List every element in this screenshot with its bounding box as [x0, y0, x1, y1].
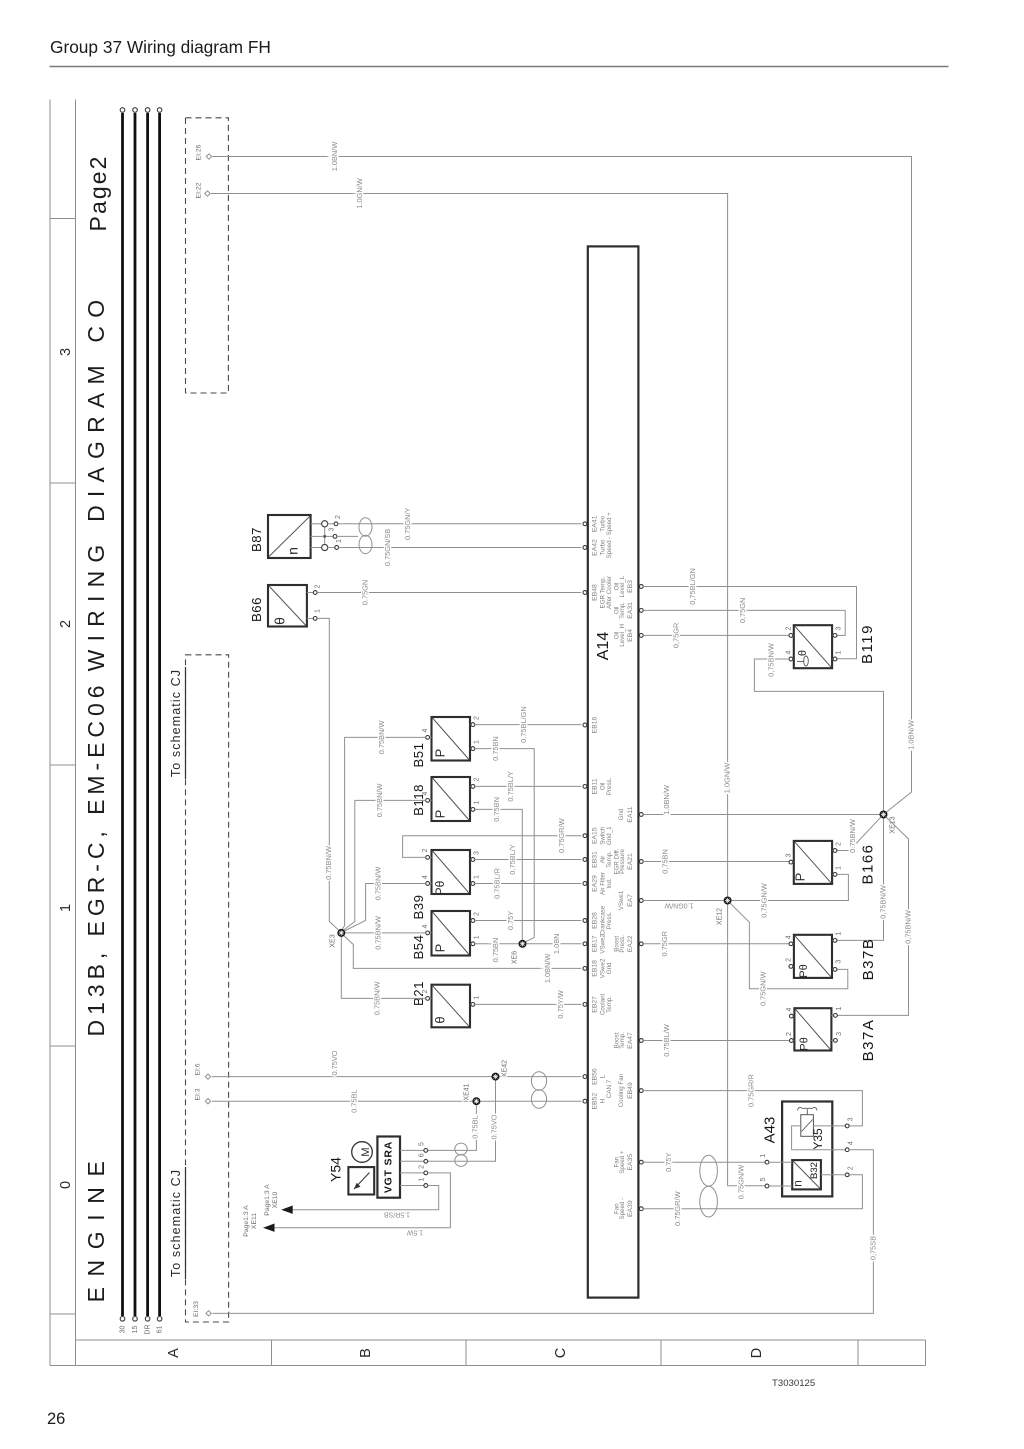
control unit A14: [588, 246, 639, 1297]
svg-text:0.75BL/R: 0.75BL/R: [492, 868, 501, 899]
svg-text:2: 2: [473, 716, 480, 720]
svg-text:1.0BN/W: 1.0BN/W: [330, 142, 339, 172]
svg-text:D: D: [749, 1348, 765, 1358]
svg-text:3: 3: [58, 348, 74, 356]
A14 pin EB28: [583, 905, 613, 935]
svg-text:4: 4: [786, 1008, 793, 1012]
wire B87 pin3 shield stub: [337, 535, 358, 537]
svg-text:1: 1: [58, 904, 74, 912]
svg-text:XE10: XE10: [272, 1191, 279, 1208]
svg-text:B39: B39: [411, 895, 426, 920]
twisted pair symbol VGT: [455, 1143, 467, 1166]
A43 pin1: [760, 1154, 769, 1164]
svg-text:15: 15: [132, 1326, 139, 1334]
svg-text:0.75BL/W: 0.75BL/W: [662, 1024, 671, 1056]
wire B54 pin1 0.75BN to XE6: [475, 938, 519, 963]
wire B166 pin1 0.75GN/W to XE12: [732, 874, 849, 917]
svg-text:B37B: B37B: [860, 938, 877, 981]
junction XE13: [880, 811, 897, 834]
svg-text:1.0GN/W: 1.0GN/W: [664, 902, 693, 909]
svg-text:H: H: [599, 1099, 606, 1103]
svg-text:4: 4: [785, 650, 792, 654]
A43 pin2: [845, 1166, 854, 1176]
svg-text:0,75BN/W: 0,75BN/W: [903, 910, 912, 944]
sensor B32: [769, 1160, 845, 1189]
svg-text:1.0BN/W: 1.0BN/W: [543, 954, 552, 984]
svg-text:1: 1: [760, 1154, 767, 1158]
wire A14 EA22 0.75GR to B37B pin4: [643, 931, 789, 956]
svg-text:1: 1: [473, 740, 480, 744]
wire B119 pin4 0,75BN/W to XE13: [754, 643, 883, 810]
svg-text:Page2: Page2: [85, 154, 111, 231]
A14 pin EA31: [613, 602, 643, 619]
wire B39 pin3 0.75BL/Y to A14 EB31: [475, 844, 581, 874]
svg-text:0: 0: [58, 1181, 74, 1189]
A14 pin EB52: [583, 1093, 606, 1110]
svg-text:3: 3: [835, 959, 842, 963]
wire XE6 1.0BN to A14 EB17: [526, 934, 581, 955]
svg-text:CAN 7: CAN 7: [606, 1079, 613, 1098]
svg-text:2: 2: [848, 1166, 855, 1170]
sensor B87: [249, 515, 311, 558]
wire XE42 0.75VO to VGT SRA pin6: [428, 1081, 499, 1162]
svg-text:2: 2: [473, 777, 480, 781]
svg-text:0.75GN: 0.75GN: [360, 580, 369, 605]
svg-text:3: 3: [473, 851, 480, 855]
svg-text:0.75BN: 0.75BN: [492, 797, 501, 822]
svg-text:B51: B51: [411, 743, 426, 768]
junction XE12: [717, 897, 732, 926]
svg-text:EA41: EA41: [591, 515, 598, 532]
A14 pin EB49: [618, 1073, 643, 1107]
svg-text:1.0GN/W: 1.0GN/W: [355, 178, 364, 208]
wire B21 pin1 0.75Y/W to A14 EB27: [475, 990, 581, 1018]
svg-text:0,75BL/GN: 0,75BL/GN: [688, 568, 697, 605]
svg-text:Pθ: Pθ: [798, 964, 810, 977]
svg-text:B37A: B37A: [860, 1019, 877, 1062]
valve Y35: [798, 1107, 825, 1149]
wire A14 EA11 1.0BN/W to XE13: [643, 785, 879, 815]
svg-text:EB28: EB28: [591, 912, 598, 929]
svg-text:C: C: [553, 1348, 569, 1358]
svg-text:Press.: Press.: [606, 911, 613, 929]
wire A14 EA39 0.75GR/W to B32 pin2: [643, 1175, 862, 1226]
wire B51 pin1 0.75BN to XE6: [475, 736, 534, 942]
svg-text:0.75GN/Y: 0.75GN/Y: [403, 508, 412, 541]
svg-text:P: P: [792, 873, 807, 882]
svg-text:L: L: [599, 1074, 606, 1078]
svg-text:0.75GN/W: 0.75GN/W: [759, 972, 768, 1007]
svg-text:30: 30: [120, 1326, 127, 1334]
junction XE6: [511, 940, 526, 964]
svg-text:1: 1: [836, 1006, 843, 1010]
svg-text:4: 4: [422, 791, 429, 795]
wire B54 pin2 0.75Y to A14 EB28: [475, 911, 581, 930]
svg-text:θ: θ: [797, 650, 809, 656]
bottom ruler band: [50, 1340, 925, 1366]
sensor B166: [785, 841, 876, 885]
A14 pin EA7: [618, 890, 643, 910]
wire B118 pin4 0.75BN/W to XE3: [343, 784, 426, 931]
VGT SRA pin2: [400, 1165, 428, 1175]
svg-text:Pθ: Pθ: [798, 1037, 810, 1050]
svg-text:1: 1: [835, 650, 842, 654]
A14 pin EA42: [583, 537, 613, 559]
wire XE13 0,75BN/W to B37A pin1: [837, 817, 912, 1015]
svg-text:EA42: EA42: [591, 539, 598, 556]
svg-text:A43: A43: [761, 1117, 778, 1144]
svg-text:XE13: XE13: [889, 816, 896, 833]
svg-text:0.75Y/W: 0.75Y/W: [556, 990, 565, 1018]
A14 pin EA21: [613, 848, 643, 874]
terminal EI:26: [195, 144, 211, 160]
svg-text:A: A: [166, 1348, 182, 1358]
svg-text:5: 5: [760, 1177, 767, 1181]
A14 pin EA22: [613, 935, 643, 953]
svg-text:EA29: EA29: [591, 875, 598, 892]
A43 pin4: [845, 1141, 854, 1151]
svg-text:EB16: EB16: [591, 716, 598, 733]
wire VGT SRA pin2 1.5W to XE11: [266, 1173, 450, 1228]
svg-text:Page1:3 A: Page1:3 A: [243, 1205, 250, 1237]
svg-text:0,75BN: 0,75BN: [660, 849, 669, 874]
wire B118 pin1 0.75BN to XE6: [475, 797, 523, 940]
svg-text:VGT SRA: VGT SRA: [383, 1141, 395, 1193]
sensor B54: [411, 911, 480, 959]
A14 pin EB31: [583, 851, 613, 868]
svg-text:XE12: XE12: [717, 908, 724, 925]
wire A14 EB49 0.75GR/R to A43 pin3: [643, 1074, 862, 1126]
svg-text:4: 4: [422, 924, 429, 928]
VGT SRA pin5: [400, 1142, 428, 1152]
wire A14 EA35 0.75Y to B32 pin1: [643, 1152, 765, 1171]
svg-text:1.0GN/W: 1.0GN/W: [723, 763, 732, 793]
B87 connector pins: [311, 515, 343, 551]
dashed box to schematic (top, EI:22/EI:26): [186, 118, 229, 393]
svg-text:0,75SB: 0,75SB: [868, 1236, 877, 1260]
svg-text:0,75BN/W: 0,75BN/W: [766, 643, 775, 677]
svg-text:XE3: XE3: [329, 934, 336, 947]
svg-text:4: 4: [785, 935, 792, 939]
twisted pair symbol B87: [359, 518, 372, 554]
svg-text:0.75GR/R: 0.75GR/R: [747, 1074, 756, 1107]
svg-text:To schematic CJ: To schematic CJ: [169, 1169, 183, 1277]
svg-text:0.75BN: 0.75BN: [491, 736, 500, 761]
svg-text:EB52: EB52: [591, 1093, 598, 1110]
svg-text:0,75BN/W: 0,75BN/W: [878, 885, 887, 919]
wire A14 EB3 0,75BL/GN to B119 pin1: [643, 568, 856, 659]
sensor B118: [411, 777, 480, 821]
svg-text:Temp.: Temp.: [619, 1032, 626, 1049]
wire EI:22 1.0GN/W to XE12 and B32 pin5: [211, 178, 765, 1199]
svg-text:1: 1: [314, 609, 321, 613]
svg-text:EA31: EA31: [627, 602, 634, 619]
svg-text:1: 1: [418, 1177, 425, 1181]
svg-text:Level_H: Level_H: [619, 624, 626, 647]
A43 pin5: [760, 1177, 769, 1187]
svg-text:2: 2: [314, 584, 321, 588]
svg-text:1: 1: [473, 875, 480, 879]
svg-text:EI:33: EI:33: [193, 1301, 200, 1317]
svg-text:Pθ: Pθ: [433, 880, 447, 895]
svg-text:0,75GN: 0,75GN: [738, 598, 747, 623]
terminal EI:6: [194, 1063, 210, 1079]
dashed box to schematic CJ (bottom): [186, 655, 229, 1322]
svg-text:1.5W: 1.5W: [406, 1229, 423, 1236]
arrow to XE11 Page1:3: [243, 1205, 275, 1237]
power bus 30: [120, 108, 127, 1334]
svg-text:DR: DR: [145, 1324, 152, 1334]
wire B118 pin2 0.75BL/Y to A14 EB11: [475, 771, 581, 801]
svg-text:3: 3: [848, 1117, 855, 1121]
svg-text:0.75BN/W: 0.75BN/W: [373, 916, 382, 950]
svg-text:3: 3: [328, 527, 335, 531]
label To schematic CJ (upper): [169, 667, 186, 779]
wire XE13 0.75BN/W to B166 pin2: [837, 817, 881, 853]
svg-text:2: 2: [786, 1032, 793, 1036]
svg-text:Temp.: Temp.: [619, 602, 626, 619]
motor M symbol: [352, 1142, 373, 1163]
svg-text:Speed +: Speed +: [619, 1150, 626, 1174]
twisted pair symbol CAN: [531, 1072, 546, 1109]
svg-text:2: 2: [835, 842, 842, 846]
A14 pin EB17: [583, 933, 606, 953]
left ruler column: [50, 100, 75, 1366]
A14 pin EA41: [583, 512, 613, 536]
svg-text:1: 1: [336, 539, 343, 543]
A14 pin EA11: [618, 806, 643, 822]
arrow to XE10 Page1:3: [264, 1184, 293, 1216]
wire B66 pin1 0.75BN/W to XE3: [317, 618, 339, 930]
svg-text:B54: B54: [411, 935, 426, 960]
A14 pin EA47: [613, 1032, 643, 1049]
svg-text:B119: B119: [859, 624, 876, 664]
svg-text:P: P: [432, 749, 447, 758]
wire B51 pin2 0.75BL/GN to A14 EB16: [475, 706, 581, 743]
svg-text:n: n: [791, 1180, 805, 1187]
svg-text:0.75Y: 0.75Y: [506, 911, 515, 930]
wire Y35 to A43 pin3: [813, 1125, 845, 1127]
svg-text:0.75BL/Y: 0.75BL/Y: [508, 844, 517, 874]
wire A14 EA21 0,75BN to B166 pin3: [643, 849, 789, 874]
junction XE41: [464, 1083, 481, 1105]
control unit VGT SRA: [377, 1137, 400, 1198]
wire VGT SRA pin1 1.5R/SB to XE10: [284, 1186, 439, 1210]
svg-text:EA15: EA15: [591, 827, 598, 844]
svg-text:0.75BN/W: 0.75BN/W: [373, 982, 382, 1016]
sensor B39: [411, 848, 480, 919]
svg-text:1.0BN/W: 1.0BN/W: [906, 720, 915, 750]
wire EI:6 0.75VO to A14 EB56: [212, 1050, 581, 1076]
svg-text:0.75GN/SB: 0.75GN/SB: [383, 529, 392, 566]
power bus 15: [132, 108, 139, 1334]
wire B66 pin2 0.75GN to A14 EB48: [317, 580, 581, 605]
svg-text:To schematic CJ: To schematic CJ: [169, 669, 183, 777]
svg-text:EB31: EB31: [591, 851, 598, 868]
terminal EI:3: [194, 1088, 210, 1104]
svg-text:1: 1: [835, 866, 842, 870]
wire B51 pin4 0.75BN/W to XE3: [342, 721, 426, 930]
svg-text:XE11: XE11: [251, 1213, 258, 1229]
wire B87 pin1 0.75GN/SB to A14 EA42: [339, 529, 582, 566]
A14 pin EB16: [583, 716, 598, 733]
svg-text:61: 61: [157, 1326, 164, 1334]
svg-text:B87: B87: [249, 527, 264, 552]
svg-text:0.75BN/W: 0.75BN/W: [324, 846, 333, 880]
svg-text:0.75BL/GN: 0.75BL/GN: [519, 706, 528, 743]
svg-text:0.75BL: 0.75BL: [470, 1115, 479, 1138]
wire A14 EB4 0,75GR to B119 pin2: [643, 623, 789, 648]
svg-text:EA22: EA22: [627, 935, 634, 952]
wire B39 pin1 0.75BL/R to A14 EA29: [475, 868, 581, 899]
svg-text:VSwe2: VSwe2: [599, 933, 606, 953]
svg-text:θ: θ: [272, 617, 288, 625]
svg-text:XE41: XE41: [464, 1083, 471, 1100]
twisted pair symbol cooling fan: [700, 1155, 718, 1217]
svg-text:Ind.: Ind.: [606, 878, 613, 889]
svg-text:Press.: Press.: [619, 935, 626, 953]
svg-text:Page1:3 A: Page1:3 A: [264, 1184, 271, 1216]
svg-text:2: 2: [418, 1165, 425, 1169]
svg-text:0.75GR: 0.75GR: [660, 931, 669, 956]
label To schematic CJ (lower): [169, 1167, 186, 1279]
svg-text:Speed +: Speed +: [606, 512, 613, 536]
svg-text:0.75BL: 0.75BL: [350, 1089, 359, 1112]
svg-text:B: B: [358, 1348, 374, 1358]
svg-text:EA47: EA47: [627, 1032, 634, 1049]
svg-text:ENGINE: ENGINE: [83, 1151, 109, 1303]
svg-text:EI:26: EI:26: [195, 144, 202, 160]
svg-text:0.75BL/Y: 0.75BL/Y: [506, 771, 515, 801]
svg-text:0.75BN/W: 0.75BN/W: [377, 721, 386, 755]
svg-text:4: 4: [848, 1141, 855, 1145]
wire B87 pin2 0.75GN/Y to A14 EA41: [338, 508, 581, 541]
actuator Y54: [328, 1157, 375, 1195]
svg-text:EB18: EB18: [591, 960, 598, 977]
svg-text:Grid_1: Grid_1: [606, 826, 613, 845]
A14 pin EA15: [583, 826, 613, 845]
A14 pin EB4: [613, 624, 643, 647]
svg-text:Press.: Press.: [606, 777, 613, 795]
wire XE41 0.75BL to VGT SRA pin5: [428, 1105, 480, 1150]
wire Y35 to A43 pin4: [792, 1126, 846, 1150]
wire XE3 1.0BN/W to A14 EB18: [344, 936, 582, 984]
svg-text:0.75BN/W: 0.75BN/W: [375, 784, 384, 818]
svg-text:1: 1: [473, 935, 480, 939]
svg-text:WIRING DIAGRAM CO: WIRING DIAGRAM CO: [83, 292, 109, 672]
svg-text:EI:3: EI:3: [194, 1088, 201, 1100]
svg-text:6: 6: [418, 1153, 425, 1157]
svg-text:0.75GR/W: 0.75GR/W: [557, 818, 566, 853]
svg-text:0.75BN: 0.75BN: [491, 938, 500, 963]
svg-text:Gnd: Gnd: [618, 808, 625, 820]
svg-text:5: 5: [418, 1142, 425, 1146]
svg-text:EI:22: EI:22: [195, 182, 202, 198]
svg-text:4: 4: [422, 728, 429, 732]
svg-text:D13B, EGR-C, EM-EC06: D13B, EGR-C, EM-EC06: [83, 681, 109, 1037]
sensor B37B: [785, 931, 877, 980]
wire EI:3 0.75BL to A14 EB52: [212, 1089, 581, 1112]
junction XE42: [492, 1060, 509, 1081]
svg-text:Temp.: Temp.: [606, 851, 613, 868]
svg-text:2: 2: [422, 848, 429, 852]
svg-text:0.75GN/W: 0.75GN/W: [760, 883, 769, 918]
svg-text:2: 2: [473, 912, 480, 916]
A14 pin EB11: [583, 777, 613, 795]
control unit A43: [761, 1102, 832, 1197]
A14 pin EA35: [613, 1150, 643, 1174]
svg-text:0.75BN/W: 0.75BN/W: [848, 819, 857, 853]
svg-text:XE42: XE42: [502, 1060, 509, 1077]
svg-text:EB27: EB27: [591, 996, 598, 1013]
VGT SRA pin6: [400, 1153, 428, 1163]
svg-text:Speed -: Speed -: [606, 537, 613, 559]
A14 pin EB48: [583, 576, 613, 609]
svg-text:3: 3: [836, 1032, 843, 1036]
svg-text:VSwe1: VSwe1: [618, 890, 625, 910]
svg-text:θ: θ: [432, 1016, 447, 1023]
svg-text:After Cooler: After Cooler: [606, 576, 613, 609]
title rule: [50, 66, 949, 68]
svg-text:Temp.: Temp.: [606, 996, 613, 1013]
svg-text:EI:6: EI:6: [194, 1063, 201, 1075]
svg-text:EA7: EA7: [627, 894, 634, 907]
svg-text:Y35: Y35: [811, 1128, 825, 1150]
svg-text:EB49: EB49: [627, 1082, 634, 1099]
svg-text:P: P: [432, 810, 447, 819]
svg-text:2: 2: [422, 989, 429, 993]
junction XE3: [329, 929, 345, 948]
sensor B51: [411, 716, 480, 768]
svg-text:3: 3: [785, 854, 792, 858]
svg-text:0.75GN/W: 0.75GN/W: [736, 1165, 745, 1200]
svg-text:EB3: EB3: [627, 580, 634, 593]
sensor B21: [411, 981, 480, 1027]
svg-text:EB4: EB4: [627, 629, 634, 642]
svg-text:2: 2: [785, 626, 792, 630]
svg-text:1: 1: [473, 800, 480, 804]
wire B54 pin4 0.75BN/W to XE3: [345, 916, 426, 950]
sensor B119: [785, 624, 876, 668]
svg-text:EB17: EB17: [591, 935, 598, 952]
wire XE13 0,75BN/W to B37B pin1: [837, 819, 887, 941]
A14 pin EB27: [583, 993, 613, 1015]
wire A43 pin4 0,75SB to EI:33: [213, 1150, 878, 1314]
wire B21 pin2 0.75BN/W to XE3: [341, 937, 425, 1015]
svg-text:M: M: [360, 1147, 372, 1156]
A14 pin EB56: [583, 1068, 606, 1085]
svg-text:0.75Y: 0.75Y: [664, 1152, 673, 1171]
A14 pin EB3: [613, 575, 643, 597]
wire A14 EA31 0,75GN to B119 pin3: [643, 598, 845, 636]
svg-text:1.5R/SB: 1.5R/SB: [384, 1211, 410, 1218]
svg-text:2: 2: [785, 958, 792, 962]
svg-text:1: 1: [473, 995, 480, 999]
sensor B37A: [786, 1006, 877, 1061]
A43 pin3: [845, 1117, 854, 1127]
svg-text:0.75GR/W: 0.75GR/W: [673, 1191, 682, 1226]
svg-text:EA11: EA11: [627, 806, 634, 822]
svg-text:n: n: [285, 547, 301, 555]
svg-text:Cooling Fan: Cooling Fan: [618, 1073, 625, 1107]
svg-text:Pressure: Pressure: [619, 849, 626, 874]
wire B39 pin2 0.75GR/W to A14 EA15: [403, 818, 582, 857]
wire A14 EA7 1.0GN/W to XE12: [643, 900, 723, 902]
power bus DR: [145, 108, 152, 1335]
svg-text:EA39: EA39: [627, 1200, 634, 1217]
svg-text:A14: A14: [595, 632, 612, 661]
svg-text:EB11: EB11: [591, 778, 598, 794]
